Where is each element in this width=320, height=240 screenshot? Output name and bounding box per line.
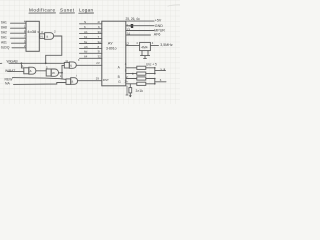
wire out row4 (126, 83, 155, 85)
svg-text:8A8: 8A8 (1, 26, 7, 30)
wire MPUR (126, 30, 154, 32)
junction dot W1 join (45, 62, 47, 64)
svg-text:25, 26, 4o: 25, 26, 4o (126, 17, 140, 21)
svg-text:NA: NA (5, 82, 10, 86)
svg-text:2V: 2V (96, 61, 100, 65)
wire row1 to U1 (11, 22, 27, 24)
capacitor mark 4b (152, 41, 154, 45)
gate B nand body (51, 69, 58, 76)
pin 28 label (96, 61, 100, 65)
capacitor mark 4 (136, 41, 138, 45)
pin 4 row1 (24, 20, 26, 24)
gate C nand body (69, 62, 76, 68)
junction dot row2 (132, 73, 134, 75)
pin 4 label U1 output (41, 30, 43, 34)
pins 7,44 label (126, 24, 134, 28)
gate D input block (66, 79, 71, 85)
label RST inside U2 (103, 78, 109, 82)
svg-text:Modificare: Modificare (29, 8, 55, 13)
svg-text:A61: A61 (1, 41, 7, 45)
svg-text:6A2: 6A2 (1, 31, 7, 35)
resistor R4 (137, 82, 146, 85)
svg-text:3-891o: 3-891o (106, 46, 117, 50)
gate B input block (46, 69, 51, 76)
vertical link rows 1-2 (154, 68, 156, 74)
pin 2 row6 (24, 44, 26, 48)
svg-text:6s: 6s (84, 40, 88, 44)
svg-text:A1: A1 (84, 30, 88, 34)
resistor R5 vertical (129, 88, 132, 93)
paper background (0, 0, 180, 104)
wire to crystal X1 (126, 44, 140, 46)
svg-text:Sunet: Sunet (60, 8, 75, 13)
pin 5 gate B (46, 65, 48, 69)
pin 8 row3 (24, 30, 26, 34)
pin 1 gate A (22, 64, 24, 68)
junction dot B out (61, 72, 63, 74)
svg-text:61: 61 (84, 35, 88, 39)
svg-text:A6: A6 (84, 45, 88, 49)
stub 1 label (161, 67, 163, 71)
wire C out to U2 pin 28 (76, 64, 102, 66)
bus wire DA7 (80, 57, 102, 59)
wire +5V (126, 20, 154, 22)
resistor R3 (137, 77, 146, 80)
pin 6 label near junction (60, 74, 62, 78)
bus wire DA4 (80, 43, 102, 45)
pin 13 label (127, 28, 131, 32)
pin F gate C out (78, 58, 80, 62)
channel B label inside U2 (118, 75, 120, 79)
pin 2b label out row3 (126, 75, 128, 79)
pin 2 G2 output (54, 30, 56, 34)
svg-text:6A1: 6A1 (1, 21, 7, 25)
wire AF6 (126, 34, 151, 36)
pin t gate D (76, 74, 77, 78)
svg-text:3,5MHz: 3,5MHz (160, 43, 173, 47)
net +5V label (155, 19, 162, 23)
svg-text:N: N (41, 35, 43, 39)
svg-text:AF6: AF6 (154, 33, 161, 37)
svg-text:32: 32 (98, 55, 102, 59)
IC U1 4038 (26, 21, 39, 51)
wire R5 to ground (129, 93, 131, 96)
pin 24 label out row4 (125, 80, 129, 84)
output stub 2 (155, 81, 166, 83)
gate C input block (64, 62, 69, 68)
svg-text:2h: 2h (125, 80, 129, 84)
svg-text:6cDQ: 6cDQ (1, 45, 10, 49)
pin 12 label (125, 42, 129, 46)
pin 5 label out row2 (125, 68, 127, 72)
svg-text:3l: 3l (98, 50, 101, 54)
node GA3 label row4 (1, 36, 7, 40)
wire out row3 (126, 78, 155, 80)
junction dot WIGAB (21, 62, 23, 64)
pin 3 label U1 output (37, 30, 39, 34)
node WIGAB label (7, 59, 19, 63)
svg-text:3×1k: 3×1k (136, 89, 144, 93)
wire G2 out down-left (46, 36, 62, 63)
junction dot link1 bottom (154, 73, 156, 75)
wire REW to gate D (13, 78, 67, 80)
channel C label inside U2 (118, 80, 121, 84)
output stub 1 (155, 69, 166, 71)
wire NA to gate D (14, 83, 67, 85)
node A61 label row5 (1, 41, 7, 45)
svg-text:29: 29 (96, 76, 100, 80)
gate A input block (24, 68, 29, 74)
svg-text:W: W (52, 71, 55, 75)
wire to resistor R5 (129, 84, 131, 88)
svg-text:B: B (118, 75, 120, 79)
node GCDQ label row6 (1, 45, 10, 49)
svg-text:WiGAB: WiGAB (7, 59, 19, 63)
svg-text:4o38: 4o38 (27, 29, 37, 34)
channel A label inside U2 (118, 66, 121, 70)
svg-text:6A1: 6A1 (1, 36, 7, 40)
wire WIGAB (9, 62, 64, 64)
resistor R2 (137, 72, 146, 75)
stub 2 label (160, 78, 162, 82)
bus wire DA2 (80, 33, 102, 35)
node REW label (5, 77, 14, 81)
IC U2 AY-3-8910 (102, 21, 126, 86)
capacitors under crystal (141, 51, 150, 59)
pin 14 label (127, 32, 131, 36)
svg-text:Logan: Logan (79, 8, 93, 13)
svg-text:11: 11 (65, 59, 68, 63)
pin 29 label (96, 76, 100, 80)
edge ink speck (0, 62, 2, 64)
wire B out to C and junction (59, 65, 65, 78)
svg-text:14: 14 (127, 32, 131, 36)
wire crystal right (150, 44, 158, 46)
wire row6 to U1 (12, 47, 26, 49)
pin 7 row4 (24, 35, 26, 39)
wire row2 to U1 (11, 27, 27, 29)
pin 4 label out row1 (125, 62, 127, 66)
svg-text:F: F (78, 58, 80, 62)
svg-text:31: 31 (98, 30, 102, 34)
wire A out to B (36, 70, 46, 72)
pin 11 gate C (65, 59, 68, 63)
svg-text:3o: 3o (98, 40, 102, 44)
wire D out to U2 pin 29 (78, 80, 102, 82)
bus wire DA0 (80, 23, 102, 25)
label Uca +5 (146, 62, 157, 66)
crystal X1 (140, 42, 151, 50)
svg-text:&: & (30, 69, 32, 73)
net AF6 label (154, 33, 161, 37)
pins 25,26,40 label (126, 17, 140, 21)
gate A nand body (29, 67, 36, 74)
svg-text:AY: AY (108, 41, 113, 46)
svg-text:6d: 6d (84, 50, 88, 54)
wire row4 to U1 (11, 37, 27, 39)
svg-text:N: N (84, 20, 86, 24)
title underline (29, 12, 94, 14)
net MPUR label (154, 28, 165, 32)
junction dot link1 top (154, 67, 156, 69)
net GND label (155, 24, 163, 28)
ground stub U2 bottom (126, 86, 128, 95)
wire GND (126, 25, 154, 27)
wire WBAT to gate A (8, 70, 24, 72)
pin 5 row5 (24, 40, 26, 44)
pin 1 row2 (24, 25, 26, 29)
wire out row1 (126, 67, 155, 69)
node NA label (5, 82, 10, 86)
vertical link rows 3-4 (154, 79, 156, 84)
svg-text:RST: RST (103, 78, 109, 82)
wire row3 to U1 (11, 32, 27, 34)
wire out row2 (126, 73, 155, 75)
value 3,5MHz (160, 43, 173, 47)
svg-text:&: & (46, 34, 48, 38)
svg-text:&: & (71, 80, 73, 84)
bus wire DA3 (80, 38, 102, 40)
gate D nand body (71, 78, 78, 85)
faint pencil squiggle top right (168, 5, 181, 6)
title text (29, 8, 93, 13)
bus wire DA5 (80, 47, 102, 49)
svg-text:&: & (70, 64, 72, 68)
ground tick X1 (144, 57, 147, 59)
wire row5 to U1 (12, 42, 27, 44)
wire branch to gate A (21, 63, 23, 68)
svg-text:2l: 2l (98, 20, 101, 24)
node WBAT label (5, 69, 15, 73)
svg-text:4M4: 4M4 (141, 45, 147, 49)
gate G1 input block (40, 34, 45, 39)
bus wire DA6 (80, 52, 102, 54)
svg-text:+5V: +5V (155, 19, 162, 23)
svg-text:Uτα + 5: Uτα + 5 (146, 62, 157, 66)
node NA8 label row2 (1, 26, 7, 30)
ground arrow (129, 95, 132, 97)
resistor R1 (137, 66, 146, 69)
gate G2 nand (45, 33, 54, 40)
node GA2 label row3 (1, 31, 7, 35)
bus wire DA1 (80, 28, 102, 30)
svg-text:64: 64 (84, 55, 88, 59)
node GA1 label row1 (1, 21, 7, 25)
junction dot link2 bottom (154, 83, 156, 85)
junction dot link2 top (154, 78, 156, 80)
value 3x1k (136, 89, 144, 93)
